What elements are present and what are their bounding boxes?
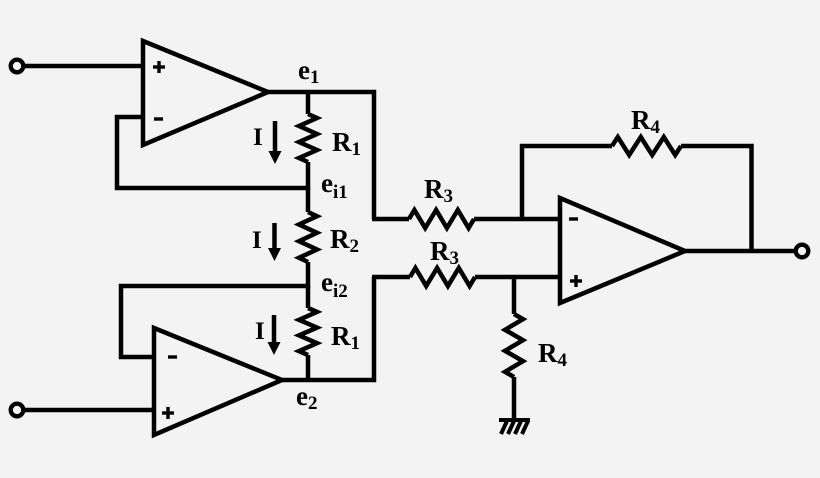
op-amp U1 [143, 41, 268, 145]
wire junction up to feedback [520, 144, 525, 219]
svg-text:R1: R1 [331, 321, 360, 354]
wire e2 up to R3 lower [372, 277, 377, 382]
wire to R3 lower [372, 275, 410, 280]
svg-text:R4: R4 [538, 338, 568, 371]
current arrow I2 [268, 223, 281, 261]
wire R4 to ground [512, 377, 517, 420]
wire ei1 to R2 [306, 188, 311, 212]
wire junction down to R4 [512, 277, 517, 314]
wire to R3 top [372, 217, 409, 222]
svg-text:R4: R4 [631, 105, 661, 138]
svg-text:e2: e2 [296, 381, 317, 414]
svg-text:R3: R3 [430, 236, 459, 269]
svg-text:I: I [255, 318, 265, 345]
ground [499, 420, 530, 434]
svg-text:I: I [253, 124, 263, 151]
resistor R1 lower [299, 308, 317, 355]
wire R4 to right drop [681, 146, 752, 251]
current arrow I1 [269, 121, 282, 164]
wire R1 lower to e2 [306, 355, 311, 380]
wire U1 output to e1 [268, 90, 376, 95]
wire R3 top to U3 minus [474, 217, 560, 222]
output terminal [796, 245, 809, 258]
wire ei2 feedback to U2 minus [121, 286, 310, 357]
wire ei2 to R1 lower [306, 286, 311, 308]
current arrow I3 [268, 315, 281, 355]
svg-text:R3: R3 [424, 174, 453, 207]
wire R3 lower to U3 plus [475, 275, 560, 280]
resistor R2 [299, 212, 317, 262]
input terminal top [11, 60, 24, 73]
op-amp U3 [560, 198, 685, 303]
wire R2 to ei2 [306, 262, 311, 288]
resistor R4 top [612, 137, 681, 155]
wire U2 output to e2 [282, 378, 376, 383]
wire e1 node down [306, 92, 311, 114]
resistor R1 [299, 114, 317, 162]
svg-text:I: I [252, 227, 262, 254]
svg-text:R2: R2 [330, 224, 359, 257]
wire feedback left [520, 144, 612, 149]
wire U3 output [685, 249, 797, 254]
resistor R3 lower [410, 268, 475, 286]
wire ei1 feedback to U1 minus [117, 117, 310, 188]
svg-text:ei2: ei2 [321, 267, 348, 302]
resistor R4 lower [505, 314, 523, 377]
svg-text:ei1: ei1 [321, 168, 348, 203]
wire bottom input [23, 408, 154, 413]
wire top input [23, 64, 143, 69]
resistor R3 top [409, 210, 474, 228]
wire R1 to ei1 [306, 162, 311, 190]
svg-text:R1: R1 [332, 127, 361, 160]
op-amp U2 [154, 328, 282, 435]
svg-text:e1: e1 [298, 55, 319, 88]
input terminal bottom [11, 404, 24, 417]
wire e1 down to R3 [372, 90, 377, 219]
